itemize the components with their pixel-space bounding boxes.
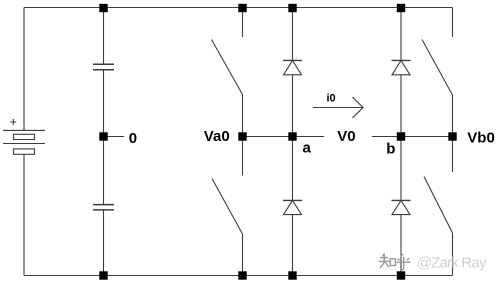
svg-text:V0: V0 [337,128,355,145]
svg-text:i0: i0 [327,92,336,104]
svg-text:a: a [303,140,312,157]
svg-text:b: b [386,141,395,158]
svg-text:Va0: Va0 [204,128,230,145]
svg-text:Vb0: Vb0 [467,130,495,147]
svg-text:0: 0 [129,130,137,147]
svg-text:@Zark Ray: @Zark Ray [417,254,487,271]
